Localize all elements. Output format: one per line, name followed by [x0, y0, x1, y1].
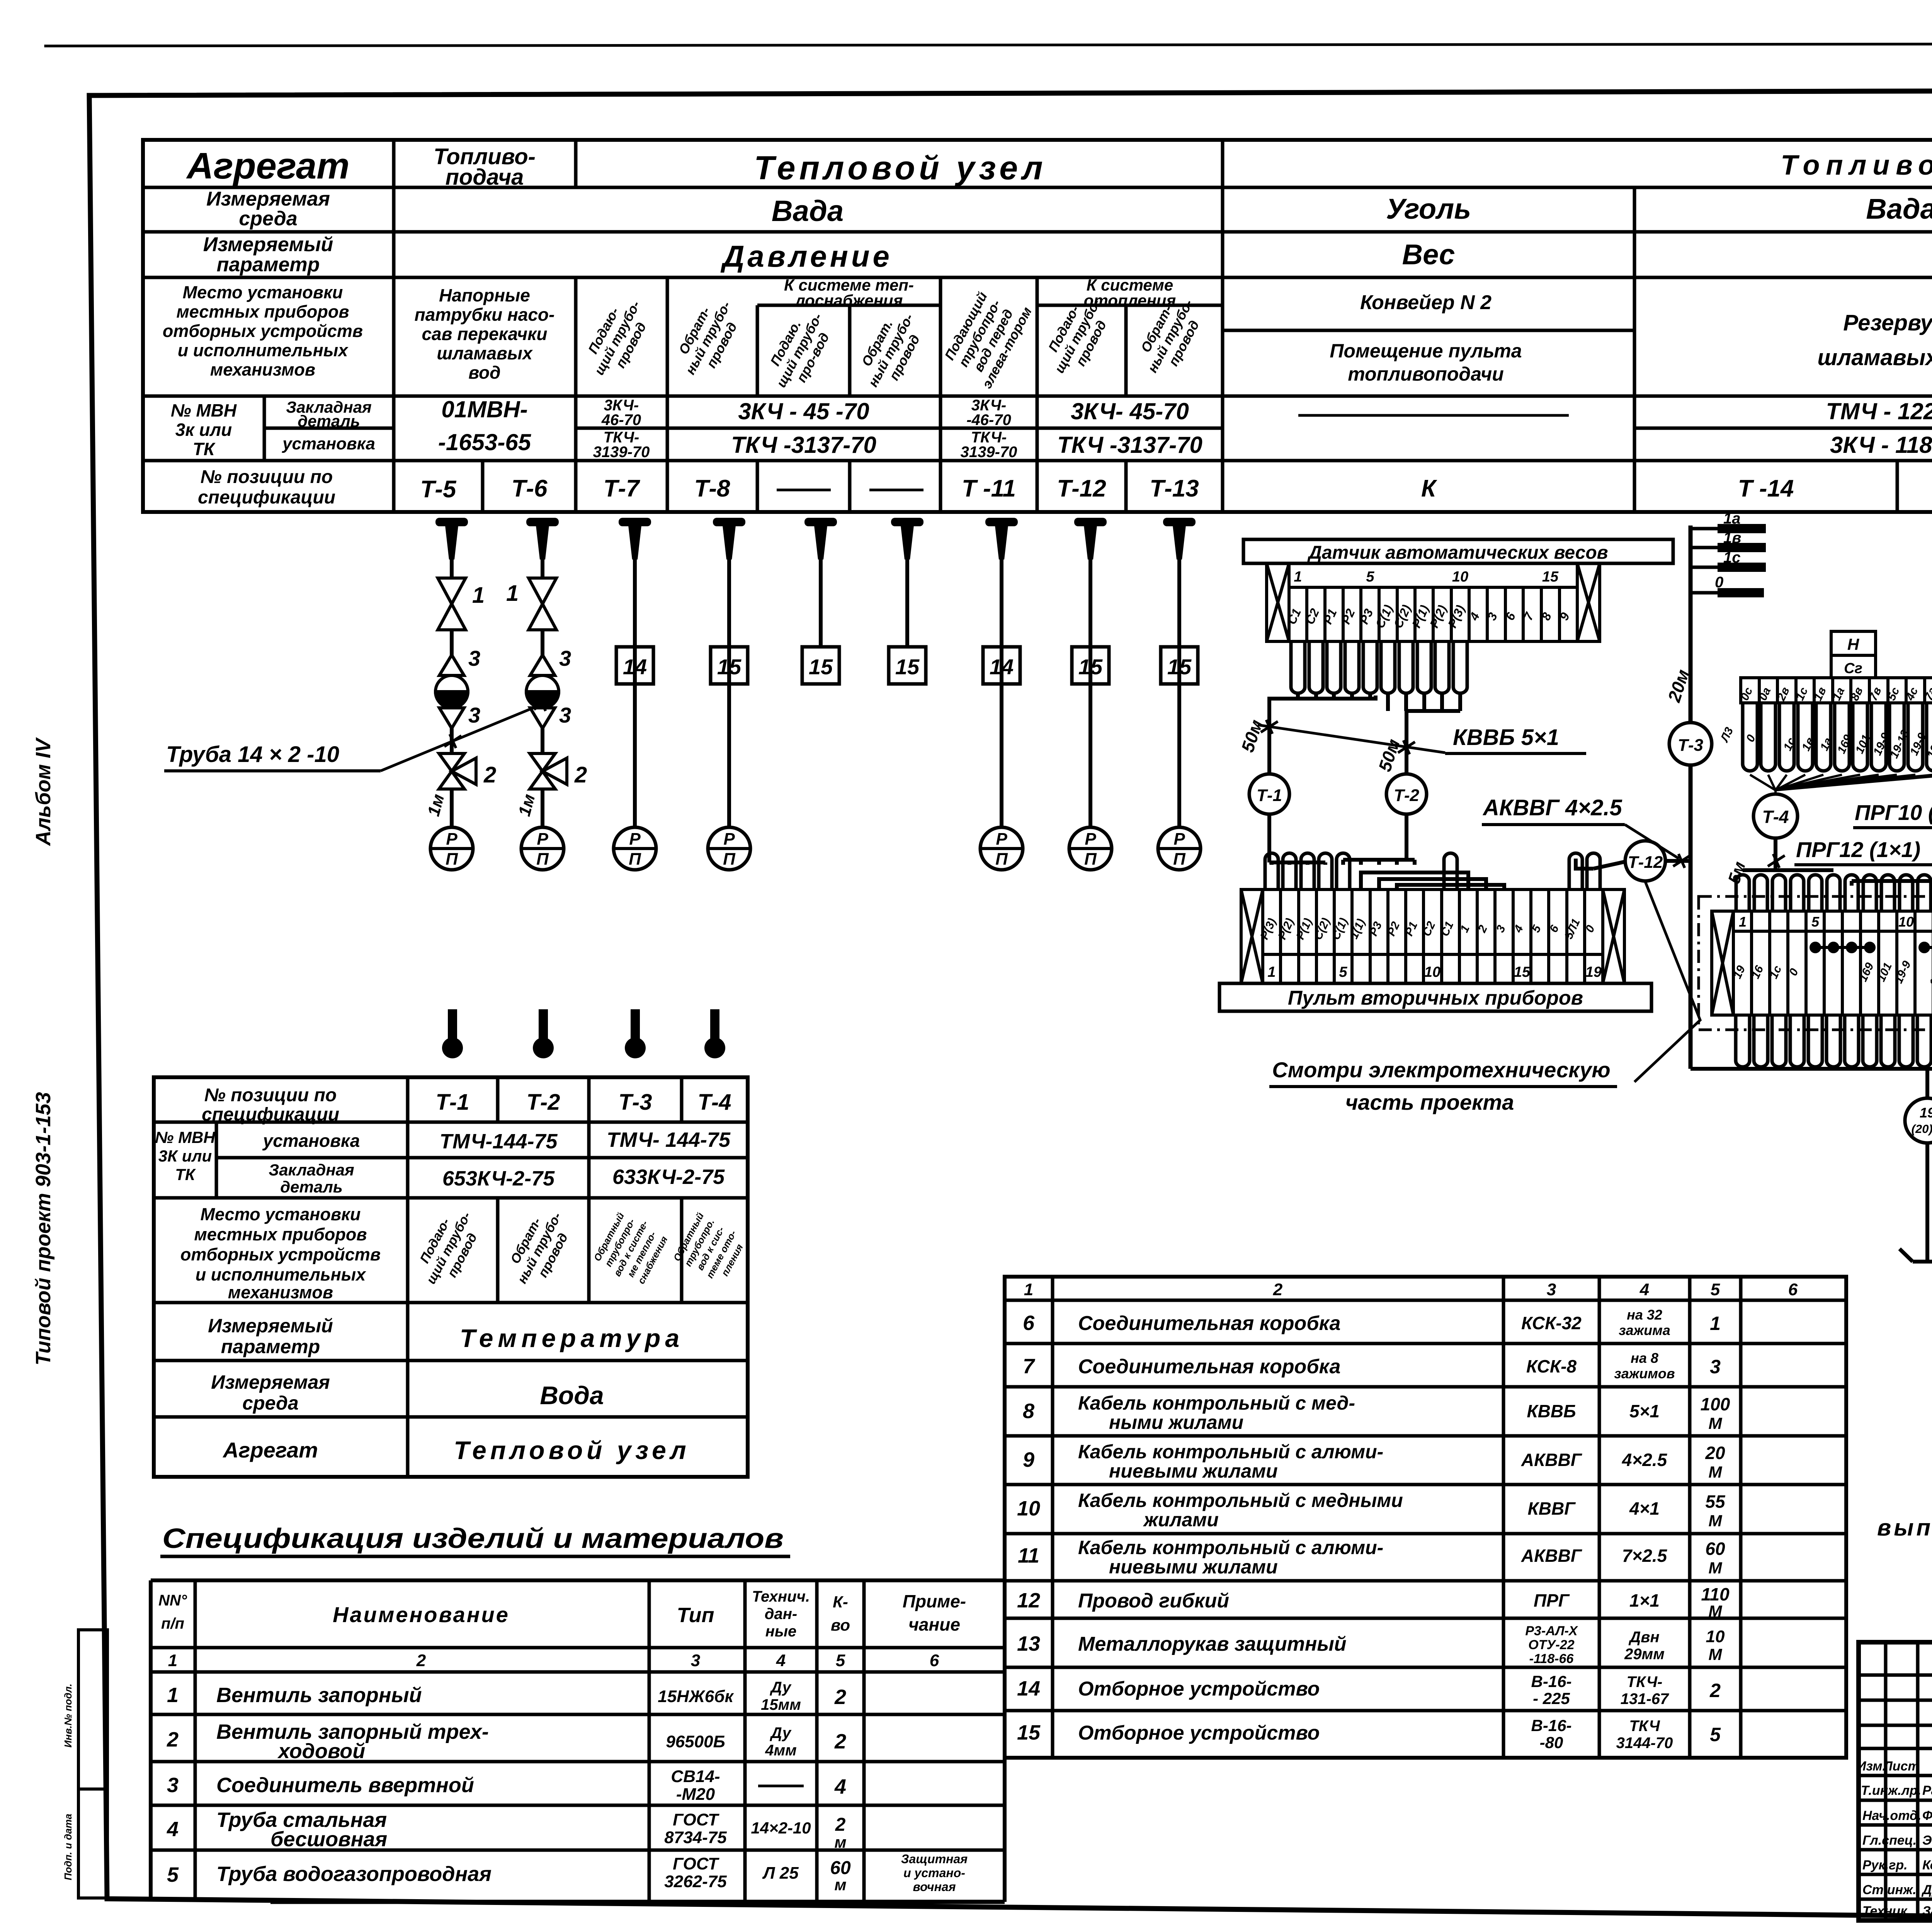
three-way cock 3 on line 1	[435, 655, 559, 728]
svg-text:3КЧ - 118 -74: 3КЧ - 118 -74	[1830, 432, 1932, 458]
svg-text:0: 0	[1715, 574, 1723, 591]
pressure gauge РП on line 8	[1069, 827, 1112, 870]
svg-text:АКВВГ: АКВВГ	[1521, 1450, 1582, 1470]
impulse line 2	[541, 558, 544, 827]
svg-text:15: 15	[1017, 1721, 1041, 1744]
svg-text:5: 5	[836, 1651, 845, 1670]
svg-text:15: 15	[1167, 655, 1192, 679]
main cabinet dash-dot boundary	[1699, 896, 1932, 1030]
strip 1 hanging wire loops	[1743, 703, 1932, 771]
svg-text:Ду: Ду	[770, 1725, 792, 1742]
svg-text:3: 3	[468, 703, 480, 727]
svg-text:50м: 50м	[1237, 717, 1267, 755]
svg-text:Приме-: Приме-	[903, 1591, 966, 1611]
svg-text:ТМЧ - 122 -74: ТМЧ - 122 -74	[1826, 398, 1932, 424]
svg-text:Кабель контрольный с мед-: Кабель контрольный с мед-	[1078, 1392, 1355, 1414]
svg-text:(20)-1: (20)-1	[1912, 1122, 1932, 1136]
svg-text:Кабель контрольный с алюми-: Кабель контрольный с алюми-	[1078, 1441, 1383, 1463]
row4 rotated pipe headers	[578, 283, 1210, 397]
svg-text:Рук.гр.: Рук.гр.	[1862, 1858, 1908, 1872]
svg-text:100: 100	[1701, 1394, 1730, 1414]
svg-text:20: 20	[1705, 1443, 1725, 1463]
svg-text:Уголь: Уголь	[1386, 193, 1471, 225]
T-12 wires	[1576, 859, 1690, 869]
svg-text:КСК-32: КСК-32	[1521, 1313, 1582, 1333]
svg-text:19: 19	[1920, 1105, 1932, 1121]
svg-text:Вода: Вода	[540, 1381, 604, 1410]
sheet outer thin border top	[46, 43, 1932, 46]
svg-text:653КЧ-2-75: 653КЧ-2-75	[442, 1167, 555, 1190]
svg-text:№ позиции по: № позиции по	[201, 467, 333, 487]
secondary panel label box	[1219, 983, 1651, 1011]
svg-text:3139-70: 3139-70	[961, 444, 1017, 461]
svg-text:Типовой проект 903-1-153: Типовой проект 903-1-153	[32, 1092, 55, 1366]
svg-text:М: М	[1709, 1559, 1723, 1577]
svg-text:4×2.5: 4×2.5	[1622, 1450, 1668, 1470]
leader wire	[381, 704, 543, 771]
svg-text:№ МВН: № МВН	[155, 1128, 216, 1146]
svg-text:Т-2: Т-2	[527, 1090, 560, 1115]
svg-text:Р1: Р1	[1320, 607, 1339, 626]
svg-text:КВВБ 5×1: КВВБ 5×1	[1453, 725, 1559, 750]
svg-text:Закомаркова: Закомаркова	[1922, 1904, 1932, 1918]
svg-text:1м: 1м	[424, 792, 448, 818]
svg-text:5Л1: 5Л1	[1562, 917, 1583, 941]
svg-text:2: 2	[834, 1730, 846, 1753]
impulse line 5	[819, 558, 823, 647]
svg-text:Р(3): Р(3)	[1258, 916, 1279, 941]
svg-text:ГОСТ: ГОСТ	[673, 1810, 719, 1829]
svg-text:механизмов: механизмов	[228, 1282, 333, 1302]
svg-text:ТМЧ- 144-75: ТМЧ- 144-75	[607, 1128, 731, 1151]
pressure gauge РП on line 1	[430, 827, 473, 870]
svg-text:15НЖ6бк: 15НЖ6бк	[658, 1687, 734, 1706]
SECTION: center strips	[1664, 510, 1932, 1262]
svg-text:3: 3	[468, 646, 480, 670]
svg-text:№ позиции по: № позиции по	[204, 1085, 337, 1105]
svg-text:вод: вод	[468, 362, 500, 383]
svg-text:5: 5	[1811, 914, 1820, 930]
T-3 riser wire	[1689, 526, 1693, 1069]
svg-text:15: 15	[1514, 964, 1531, 980]
svg-text:АКВВГ 4×2.5: АКВВГ 4×2.5	[1482, 795, 1622, 820]
svg-text:Соединитель ввертной: Соединитель ввертной	[216, 1774, 474, 1797]
svg-text:Конвейер N 2: Конвейер N 2	[1360, 291, 1492, 314]
panel strip upper loops	[1265, 853, 1278, 889]
svg-text:Т-4: Т-4	[1762, 807, 1789, 827]
svg-text:2: 2	[1273, 1280, 1283, 1299]
svg-text:5: 5	[1711, 1280, 1720, 1299]
svg-text:ПРГ12 (1×1): ПРГ12 (1×1)	[1796, 837, 1920, 862]
svg-text:Л3: Л3	[1718, 725, 1736, 745]
svg-text:и устано-: и устано-	[903, 1866, 965, 1880]
sensor tap T-7	[619, 518, 651, 560]
svg-text:10: 10	[1898, 914, 1914, 930]
svg-text:1×1: 1×1	[1629, 1590, 1660, 1611]
svg-text:С(1): С(1)	[1329, 916, 1350, 942]
svg-text:дан-: дан-	[765, 1605, 797, 1622]
svg-text:5×1: 5×1	[1629, 1401, 1660, 1421]
svg-text:6: 6	[1023, 1311, 1035, 1335]
svg-text:2: 2	[1709, 1680, 1721, 1701]
sensor tap T-11	[985, 518, 1018, 560]
svg-text:С(1): С(1)	[1373, 603, 1396, 631]
svg-text:Соединительная коробка: Соединительная коробка	[1078, 1312, 1340, 1335]
svg-text:ходовой: ходовой	[277, 1740, 365, 1763]
svg-text:3: 3	[167, 1774, 179, 1797]
svg-text:NN°: NN°	[158, 1592, 187, 1609]
svg-text:Т-4: Т-4	[698, 1090, 731, 1115]
svg-text:4: 4	[834, 1775, 846, 1798]
svg-text:1: 1	[167, 1684, 179, 1707]
svg-text:Т-1: Т-1	[1257, 786, 1282, 805]
svg-text:Р2: Р2	[1338, 607, 1357, 626]
svg-text:Отборное устройство: Отборное устройство	[1078, 1722, 1320, 1744]
impulse line 6	[905, 558, 909, 647]
svg-text:1а: 1а	[1723, 510, 1741, 527]
svg-text:3: 3	[691, 1651, 700, 1670]
svg-text:Защитная: Защитная	[901, 1852, 968, 1866]
instrument 19(20)-1	[1925, 1069, 1929, 1098]
svg-text:Т-1: Т-1	[436, 1090, 469, 1115]
svg-text:Т-8: Т-8	[694, 475, 731, 502]
svg-text:3262-75: 3262-75	[664, 1872, 727, 1891]
svg-text:3: 3	[559, 646, 571, 670]
svg-text:Топливо-подача: Топливо-подача	[1781, 150, 1932, 181]
svg-text:3К или: 3К или	[158, 1147, 212, 1165]
shut-off valve 2 on line 2	[530, 753, 555, 771]
svg-text:5: 5	[1366, 569, 1374, 585]
svg-text:Тепловой узел: Тепловой узел	[754, 150, 1046, 187]
svg-text:установка: установка	[282, 434, 375, 453]
svg-text:1: 1	[1739, 914, 1747, 930]
svg-text:15: 15	[809, 655, 833, 679]
svg-text:Р(2): Р(2)	[1427, 603, 1449, 630]
terminal strip 1	[1741, 678, 1932, 703]
svg-text:13: 13	[1017, 1632, 1040, 1655]
cable label КВВБ 5х1	[1258, 725, 1445, 753]
svg-text:С(2): С(2)	[1391, 603, 1414, 631]
svg-text:1: 1	[472, 583, 485, 608]
svg-text:Файерштейн: Файерштейн	[1922, 1808, 1932, 1823]
svg-text:1в: 1в	[1723, 529, 1741, 546]
svg-text:отопления: отопления	[1084, 291, 1176, 310]
valve 1 on line 1	[438, 578, 556, 630]
pressure gauge РП on line 7	[980, 827, 1023, 870]
svg-text:ниевыми жилами: ниевыми жилами	[1109, 1556, 1278, 1578]
svg-text:Двн: Двн	[1628, 1629, 1659, 1646]
svg-text:Кабель контрольный с алюми-: Кабель контрольный с алюми-	[1078, 1537, 1383, 1558]
thermometer T-1	[442, 1009, 463, 1058]
svg-text:К: К	[1421, 475, 1437, 502]
svg-text:1: 1	[1294, 569, 1302, 585]
svg-text:зажимов: зажимов	[1614, 1366, 1675, 1381]
instrument T-2	[1386, 774, 1427, 814]
svg-text:Датчик автоматических весов: Датчик автоматических весов	[1307, 543, 1608, 563]
instrument T-1	[1249, 774, 1289, 814]
svg-text:4: 4	[1639, 1280, 1649, 1299]
svg-text:Изм.: Изм.	[1857, 1759, 1886, 1774]
svg-text:2: 2	[835, 1815, 846, 1835]
svg-text:Тепловой узел: Тепловой узел	[454, 1436, 690, 1464]
svg-text:Т-3: Т-3	[619, 1090, 652, 1115]
svg-text:Техник: Техник	[1862, 1904, 1908, 1918]
SECTION: right section	[1900, 523, 1932, 1348]
svg-text:топливоподачи: топливоподачи	[1348, 363, 1504, 385]
svg-text:и исполнительных: и исполнительных	[178, 340, 349, 360]
T-4 T-5 down wires	[1743, 838, 1932, 886]
svg-text:отборных устройств: отборных устройств	[180, 1245, 381, 1264]
svg-text:7: 7	[1023, 1355, 1036, 1378]
svg-text:механизмов: механизмов	[210, 360, 315, 379]
svg-text:Смотри электротехническую: Смотри электротехническую	[1272, 1058, 1610, 1082]
svg-text:5: 5	[1339, 964, 1347, 980]
svg-text:14×2-10: 14×2-10	[751, 1819, 811, 1837]
svg-text:3КЧ - 45 -70: 3КЧ - 45 -70	[738, 398, 869, 424]
svg-text:Т -11: Т -11	[962, 475, 1016, 502]
svg-text:шламавых вод: шламавых вод	[1818, 345, 1932, 370]
instrument T-12	[1625, 841, 1665, 881]
svg-text:ниевыми жилами: ниевыми жилами	[1109, 1460, 1278, 1482]
impulse line 8	[1088, 558, 1092, 827]
svg-text:Этинген: Этинген	[1922, 1833, 1932, 1848]
svg-text:ПРГ: ПРГ	[1534, 1590, 1570, 1611]
left bottom mini stamp	[78, 1630, 107, 1898]
svg-text:К-: К-	[833, 1593, 848, 1611]
svg-text:ТКЧ -3137-70: ТКЧ -3137-70	[731, 432, 876, 458]
impulse line 9	[1177, 558, 1181, 827]
svg-text:ОТУ-22: ОТУ-22	[1528, 1638, 1574, 1652]
svg-text:лоснабжения: лоснабжения	[794, 291, 903, 310]
svg-text:КВВГ: КВВГ	[1528, 1498, 1576, 1519]
junction stubs 1a 1b 1c 0	[1692, 529, 1718, 593]
svg-text:подача: подача	[446, 165, 524, 190]
svg-text:15: 15	[717, 655, 742, 679]
svg-text:Вада: Вада	[772, 195, 844, 228]
svg-text:Давление: Давление	[720, 239, 893, 273]
svg-text:1: 1	[1267, 964, 1276, 980]
impulse line 4	[727, 558, 731, 827]
pressure gauge РП on line 4	[708, 827, 750, 870]
svg-text:установка: установка	[262, 1131, 360, 1151]
svg-text:3144-70: 3144-70	[1616, 1735, 1673, 1752]
pressure gauge РП on line 3	[614, 827, 656, 870]
svg-text:Дракина: Дракина	[1921, 1883, 1932, 1897]
svg-text:Спецификация изделий и материа: Спецификация изделий и материалов	[162, 1523, 784, 1554]
svg-text:5: 5	[1710, 1724, 1721, 1745]
svg-text:1: 1	[1024, 1280, 1033, 1299]
svg-text:местных приборов: местных приборов	[194, 1225, 367, 1244]
svg-text:4×1: 4×1	[1629, 1498, 1660, 1519]
svg-text:№ МВН: № МВН	[171, 400, 237, 420]
svg-text:на 32: на 32	[1627, 1307, 1662, 1323]
svg-text:7×2.5: 7×2.5	[1622, 1546, 1668, 1566]
impulse line 3	[633, 558, 637, 827]
SECTION: spec table	[151, 1523, 1005, 1902]
svg-text:6: 6	[1788, 1280, 1798, 1299]
svg-text:3КЧ- 45-70: 3КЧ- 45-70	[1071, 398, 1189, 424]
svg-text:Т-13: Т-13	[1150, 475, 1199, 502]
SECTION: spec table	[0, 0, 0, 0]
svg-text:3: 3	[1547, 1280, 1556, 1299]
impulse line 7	[1000, 558, 1003, 827]
sensor tap T-12	[1074, 518, 1107, 560]
svg-text:Гл.спец.: Гл.спец.	[1862, 1833, 1917, 1848]
svg-text:Агрегат: Агрегат	[222, 1438, 318, 1462]
svg-text:КВВБ: КВВБ	[1527, 1401, 1576, 1421]
svg-text:Соединительная коробка: Соединительная коробка	[1078, 1355, 1340, 1378]
svg-text:15: 15	[1542, 569, 1559, 585]
svg-text:46-70: 46-70	[601, 412, 641, 429]
svg-text:ПРГ10 (1×1): ПРГ10 (1×1)	[1855, 800, 1932, 825]
svg-text:М: М	[1709, 1512, 1723, 1530]
svg-text:Альбом IV: Альбом IV	[32, 737, 55, 847]
svg-text:12: 12	[1017, 1589, 1040, 1612]
svg-text:патрубки насо-: патрубки насо-	[415, 304, 555, 325]
svg-text:В-16-: В-16-	[1531, 1716, 1571, 1735]
H/Cr head 1	[1831, 631, 1876, 678]
svg-text:4: 4	[776, 1651, 786, 1670]
svg-text:Резервуар: Резервуар	[1843, 310, 1932, 335]
svg-text:11: 11	[1018, 1544, 1039, 1567]
sensor tap	[804, 518, 837, 560]
svg-text:Агрегат: Агрегат	[186, 145, 349, 187]
svg-text:п/п: п/п	[161, 1615, 184, 1632]
svg-text:ТКЧ: ТКЧ	[1629, 1718, 1660, 1735]
svg-text:Измеряемый: Измеряемый	[203, 233, 333, 256]
svg-text:-М20: -М20	[676, 1785, 715, 1804]
svg-text:1: 1	[506, 581, 519, 606]
svg-text:АКВВГ: АКВВГ	[1521, 1546, 1582, 1566]
svg-text:1: 1	[1710, 1313, 1721, 1334]
svg-text:ТК: ТК	[193, 439, 216, 459]
svg-text:Закладная: Закладная	[269, 1161, 354, 1179]
svg-text:КСК-8: КСК-8	[1526, 1356, 1577, 1376]
svg-text:параметр: параметр	[217, 253, 320, 276]
svg-text:Т-6: Т-6	[512, 475, 548, 502]
svg-text:Тип: Тип	[677, 1604, 714, 1627]
bottom collector wire	[1690, 1067, 1932, 1071]
svg-text:-1653-65: -1653-65	[438, 429, 532, 455]
pressure gauge РП on line 2	[521, 827, 564, 870]
svg-text:и исполнительных: и исполнительных	[196, 1265, 366, 1284]
svg-text:10: 10	[1706, 1627, 1725, 1646]
svg-text:Вентиль запорный: Вентиль запорный	[216, 1684, 422, 1707]
selector box 14	[616, 647, 1198, 684]
title block grid	[1859, 1642, 1932, 1920]
svg-text:- 225: - 225	[1533, 1689, 1570, 1708]
svg-text:Т -14: Т -14	[1738, 475, 1794, 502]
svg-text:Инв.№ подл.: Инв.№ подл.	[62, 1684, 74, 1748]
svg-text:Металлорукав защитный: Металлорукав защитный	[1078, 1633, 1347, 1655]
svg-text:Т-12: Т-12	[1057, 475, 1106, 502]
svg-text:14: 14	[623, 655, 647, 679]
svg-text:ТК: ТК	[175, 1165, 196, 1184]
svg-text:15мм: 15мм	[761, 1696, 801, 1713]
svg-text:Измеряемая: Измеряемая	[211, 1371, 330, 1393]
svg-text:Место установки: Место установки	[183, 282, 343, 302]
svg-text:Помещение пульта: Помещение пульта	[1330, 340, 1522, 362]
pressure gauge РП on line 9	[1158, 827, 1201, 870]
svg-text:Вес: Вес	[1402, 238, 1455, 270]
svg-text:Труба 14 × 2 -10: Труба 14 × 2 -10	[166, 742, 339, 767]
valve 1 on line 2	[529, 578, 556, 604]
sensor tap T-8	[713, 518, 745, 560]
three-way cock 3 on line 2	[530, 655, 555, 675]
svg-text:Место установки: Место установки	[201, 1204, 361, 1224]
svg-text:С1: С1	[1284, 606, 1304, 626]
svg-text:10: 10	[1424, 964, 1440, 980]
svg-text:Л 25: Л 25	[762, 1864, 799, 1883]
SECTION: top table	[143, 140, 1932, 512]
thermometer T-3	[625, 1009, 646, 1058]
svg-text:Сг: Сг	[1844, 660, 1862, 677]
svg-text:2: 2	[483, 762, 496, 787]
main strip bottom loops	[1736, 1015, 1932, 1067]
svg-text:10: 10	[1017, 1497, 1040, 1520]
svg-text:Р(3): Р(3)	[1445, 603, 1468, 630]
SECTION: mid table	[154, 1077, 750, 1477]
svg-text:-80: -80	[1540, 1733, 1563, 1752]
sensor tap T-6	[526, 518, 559, 560]
svg-text:спецификации: спецификации	[202, 1104, 339, 1125]
shut-off valve 2 on line 1	[439, 753, 567, 789]
svg-text:15: 15	[1078, 655, 1103, 679]
svg-text:ГОСТ: ГОСТ	[673, 1854, 719, 1873]
svg-text:зажима: зажима	[1619, 1322, 1670, 1338]
svg-text:633КЧ-2-75: 633КЧ-2-75	[612, 1165, 725, 1189]
svg-text:19-13: 19-13	[1927, 956, 1932, 988]
svg-text:3: 3	[559, 703, 571, 727]
svg-text:СВ14-: СВ14-	[671, 1767, 720, 1786]
svg-text:ными жилами: ными жилами	[1109, 1412, 1243, 1433]
svg-text:Кабель контрольный с медными: Кабель контрольный с медными	[1078, 1490, 1403, 1511]
svg-text:М: М	[1709, 1602, 1723, 1620]
svg-text:Т-3: Т-3	[1678, 736, 1703, 755]
svg-text:Пульт вторичных приборов: Пульт вторичных приборов	[1288, 987, 1583, 1009]
strip1 converge to T-4	[1750, 775, 1932, 794]
svg-text:Т-5: Т-5	[420, 476, 457, 503]
svg-text:110: 110	[1701, 1584, 1730, 1604]
svg-text:2: 2	[834, 1685, 846, 1709]
weigher terminal strip	[1267, 563, 1600, 641]
SECTION: notes and title block	[1857, 1366, 1932, 1920]
weigher sensor label box	[1243, 539, 1673, 563]
svg-text:6: 6	[930, 1651, 939, 1670]
jumper dots	[1811, 943, 1932, 952]
svg-text:среда: среда	[239, 207, 297, 230]
svg-text:2: 2	[574, 762, 587, 787]
svg-text:м: м	[834, 1833, 846, 1851]
svg-text:сав перекачки: сав перекачки	[422, 324, 547, 344]
svg-text:Т-7: Т-7	[604, 475, 641, 502]
impulse line 1	[452, 558, 1179, 827]
svg-text:Ду: Ду	[770, 1679, 792, 1696]
SECTION: weigher schematic	[1219, 539, 1700, 1114]
svg-text:чание: чание	[908, 1614, 960, 1634]
svg-text:бесшовная: бесшовная	[270, 1828, 387, 1851]
svg-text:Н: Н	[1847, 635, 1860, 653]
svg-text:10: 10	[1452, 569, 1468, 585]
svg-text:3: 3	[1710, 1356, 1721, 1378]
weigher cable runs to T-1 T-2	[1269, 694, 1460, 774]
svg-text:Т.инж.лр.: Т.инж.лр.	[1861, 1783, 1921, 1798]
svg-text:деталь: деталь	[280, 1178, 343, 1196]
svg-text:ные: ные	[765, 1623, 797, 1640]
svg-text:Р(2): Р(2)	[1276, 916, 1296, 941]
svg-text:М: М	[1709, 1463, 1723, 1481]
svg-text:спецификации: спецификации	[198, 487, 335, 508]
